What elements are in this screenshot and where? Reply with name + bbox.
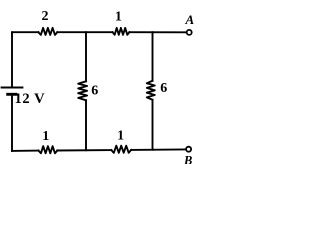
wire: right vertical branch lower part [152,100,154,150]
resistor 1 (bottom-left, zigzag) [39,146,58,153]
svg-text:1: 1 [42,129,49,144]
terminal A (open circle) [187,30,192,35]
wire: top middle segment between resistor 2 and resistor 1 [57,31,112,33]
resistor 6 (right vertical, zigzag) [147,81,155,100]
battery 12 V : long (+) plate [2,87,23,89]
wire: middle vertical branch upper part [85,32,87,81]
wire: bottom-right segment from resistor to terminal B [131,148,185,151]
wire: top-right segment from resistor 1 to terminal A [129,31,185,33]
svg-text:1: 1 [117,129,124,144]
wire: middle vertical branch lower part [85,100,87,150]
resistor 2 (top-left, zigzag) [38,28,57,35]
resistor 6 (middle vertical, zigzag) [78,81,87,100]
wire: left vertical from battery - plate down to bottom-left corner [11,94,13,151]
terminal B (open circle) [186,147,191,152]
svg-text:1: 1 [115,10,122,25]
svg-text:6: 6 [160,81,167,96]
wire: left vertical from top-left corner down to battery + plate [11,32,13,86]
wire: bottom middle segment between the two bottom resistors [57,149,111,151]
wire: right vertical branch upper part [152,32,154,81]
svg-text:A: A [184,12,194,27]
svg-text:6: 6 [91,84,98,99]
resistor 1 (bottom-middle, zigzag) [111,146,131,153]
resistor 1 (top-middle, zigzag) [113,28,130,35]
svg-text:2: 2 [42,9,49,24]
svg-text:12 V: 12 V [15,91,46,107]
svg-text:B: B [183,154,192,165]
wire: bottom-left horizontal segment from corner to bottom resistor 1 [12,150,39,152]
battery 12 V : short (-) plate [8,93,16,96]
wire: top-left horizontal segment from corner to resistor 2 [12,31,38,33]
